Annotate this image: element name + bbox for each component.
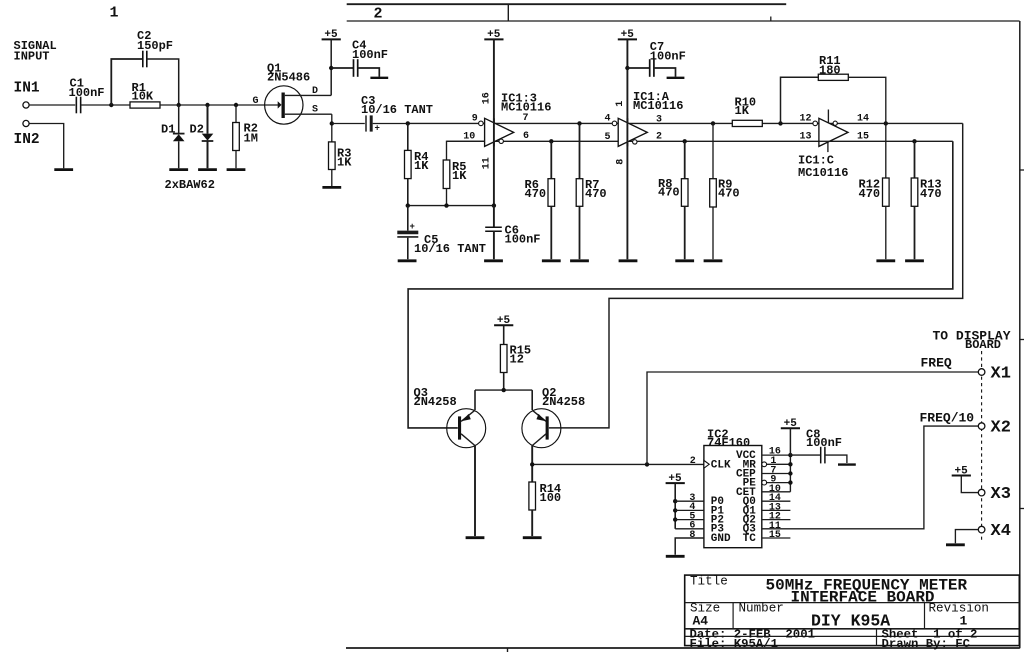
svg-text:100nF: 100nF xyxy=(650,50,686,64)
svg-text:10/16 TANT: 10/16 TANT xyxy=(361,103,433,117)
capacitor C2 xyxy=(111,29,178,105)
ground R9 xyxy=(704,259,723,262)
connector X1 xyxy=(978,365,1011,384)
svg-text:A4: A4 xyxy=(693,614,709,629)
wire IC2 GND pin xyxy=(675,538,704,555)
ground R3 xyxy=(322,186,341,189)
ground D1 xyxy=(169,168,188,171)
wire FREQ to X1 xyxy=(647,356,979,465)
svg-text:1K: 1K xyxy=(337,156,352,170)
capacitor C3 tantalum xyxy=(332,94,433,134)
svg-text:1: 1 xyxy=(110,5,119,22)
terminal IN2 xyxy=(14,120,40,148)
connector X2 xyxy=(978,419,1011,438)
wire IN2 to ground xyxy=(29,124,64,169)
wire pin14 to Q2 base xyxy=(549,123,963,428)
connector X3 xyxy=(978,485,1011,504)
ground C8 xyxy=(838,463,856,465)
title block xyxy=(685,575,1020,651)
capacitor C5 tantalum xyxy=(397,206,486,260)
svg-text:IN2: IN2 xyxy=(14,132,40,148)
svg-text:1: 1 xyxy=(960,614,968,629)
svg-text:FREQ/10: FREQ/10 xyxy=(920,411,975,426)
svg-text:470: 470 xyxy=(920,187,942,201)
capacitor C4 xyxy=(331,39,388,77)
label 2xBAW62 xyxy=(165,178,215,192)
op-amp U IC1:C MC10116 line receiver xyxy=(798,110,869,181)
svg-text:D2: D2 xyxy=(190,123,204,137)
connector dashed outline xyxy=(981,351,983,542)
svg-text:1K: 1K xyxy=(452,169,467,183)
svg-text:IN1: IN1 xyxy=(14,81,40,97)
svg-text:4: 4 xyxy=(605,114,611,125)
power +5 IC1 pin16 rail xyxy=(484,29,503,205)
ground R8 xyxy=(675,259,694,262)
sheet column label 2 xyxy=(374,6,383,23)
sheet frame bottom line xyxy=(346,648,1020,652)
svg-text:15: 15 xyxy=(857,131,869,142)
svg-text:X1: X1 xyxy=(991,365,1011,384)
svg-text:470: 470 xyxy=(718,186,740,200)
svg-text:FREQ: FREQ xyxy=(921,356,952,371)
svg-text:Number: Number xyxy=(739,602,784,616)
ground X4 xyxy=(946,543,965,546)
svg-text:14: 14 xyxy=(857,113,869,124)
resistor R10 xyxy=(732,96,762,127)
power +5 X3 xyxy=(952,465,979,492)
svg-text:GND: GND xyxy=(711,533,731,545)
IC2 right pin stubs xyxy=(762,447,793,542)
wire pin15 to Q3 base xyxy=(408,141,953,428)
svg-text:9: 9 xyxy=(472,114,478,125)
power +5 R15 xyxy=(494,315,513,344)
ground R12 xyxy=(876,259,895,262)
IC2 left pin numbers xyxy=(689,456,695,541)
resistor R13 xyxy=(911,141,941,259)
transistor Q2 2N4258 xyxy=(522,386,585,464)
transistor Q1 2N5486 JFET xyxy=(253,62,332,125)
ground R14 xyxy=(523,536,542,539)
resistor R9 xyxy=(710,123,740,259)
svg-text:1M: 1M xyxy=(244,132,258,146)
svg-text:10/16 TANT: 10/16 TANT xyxy=(414,242,486,256)
svg-text:2N5486: 2N5486 xyxy=(267,71,310,85)
power +5 IC2 preset inputs xyxy=(666,473,704,529)
svg-text:100nF: 100nF xyxy=(69,86,105,100)
svg-text:X3: X3 xyxy=(991,485,1011,504)
ground IC2 xyxy=(666,555,685,558)
svg-text:5: 5 xyxy=(605,132,611,143)
svg-text:Drawn By: FC: Drawn By: FC xyxy=(882,637,971,651)
power +5 Q1 drain xyxy=(322,29,341,95)
svg-text:MC10116: MC10116 xyxy=(798,166,848,180)
svg-text:3: 3 xyxy=(656,115,662,126)
wire C1 to R1 xyxy=(81,103,130,107)
ground D2 xyxy=(198,168,217,171)
resistor R7 xyxy=(576,123,606,259)
resistor R5 xyxy=(443,141,484,205)
svg-text:2xBAW62: 2xBAW62 xyxy=(165,178,215,192)
capacitor C1 xyxy=(69,77,105,114)
resistor R8 xyxy=(658,141,688,259)
wire R1 to Q1 gate xyxy=(160,103,278,107)
op-amp U IC1:A MC10116 line receiver xyxy=(605,90,684,165)
ground C7 xyxy=(667,77,685,79)
svg-text:7: 7 xyxy=(523,113,529,124)
wire Q2 collector to IC2 CLK xyxy=(530,462,704,466)
svg-text:12: 12 xyxy=(510,353,524,367)
wire X4 to ground xyxy=(955,530,978,544)
svg-text:2: 2 xyxy=(690,456,696,467)
ground R2 xyxy=(227,168,246,171)
svg-text:G: G xyxy=(253,96,259,107)
diode D1 xyxy=(161,105,185,168)
svg-text:TC: TC xyxy=(743,533,757,545)
svg-text:470: 470 xyxy=(525,187,547,201)
ground C6 xyxy=(484,259,503,262)
svg-text:8: 8 xyxy=(689,530,695,541)
svg-text:INTERFACE BOARD: INTERFACE BOARD xyxy=(791,589,935,607)
svg-text:1K: 1K xyxy=(414,159,429,173)
capacitor C6 xyxy=(485,206,540,260)
svg-text:470: 470 xyxy=(585,187,607,201)
ground R6 xyxy=(542,259,561,262)
svg-text:DIY K95A: DIY K95A xyxy=(811,612,890,631)
capacitor C8 xyxy=(790,428,847,464)
svg-text:X2: X2 xyxy=(991,419,1011,438)
sheet frame right edge xyxy=(1020,21,1024,648)
junction C7 tap xyxy=(625,66,629,70)
wire ECL bottom line pins 10-6-5-2-13-15 xyxy=(447,139,953,143)
junction Q1 source node xyxy=(330,121,334,125)
power +5 IC2 VCC xyxy=(781,418,800,455)
svg-text:100: 100 xyxy=(540,491,562,505)
ground IC1:A rail xyxy=(619,259,638,262)
op-amp U IC1:3 MC10116 line receiver xyxy=(463,92,551,170)
svg-text:16: 16 xyxy=(482,92,493,104)
wire IN1 to C1 xyxy=(29,104,75,106)
ground C5 xyxy=(398,259,417,262)
resistor R1 xyxy=(130,81,160,108)
ground R13 xyxy=(905,259,924,262)
wire analog bias bus xyxy=(406,203,497,207)
ground R7 xyxy=(570,259,589,262)
svg-text:X4: X4 xyxy=(991,522,1011,541)
svg-text:2N4258: 2N4258 xyxy=(414,395,457,409)
svg-text:1K: 1K xyxy=(735,104,750,118)
svg-text:470: 470 xyxy=(658,186,680,200)
resistor R11 xyxy=(781,54,886,123)
svg-text:Title: Title xyxy=(690,575,728,589)
svg-text:11: 11 xyxy=(482,157,493,169)
wire ECL top line pins 9-7-4-3-12-14 xyxy=(406,121,963,125)
label TO DISPLAY BOARD xyxy=(933,328,1011,352)
svg-text:2: 2 xyxy=(374,6,383,23)
svg-text:2N4258: 2N4258 xyxy=(542,395,585,409)
resistor R4 xyxy=(405,123,430,205)
svg-text:1: 1 xyxy=(615,101,626,107)
svg-text:12: 12 xyxy=(800,113,812,124)
resistor R12 xyxy=(859,123,890,259)
ground C4 xyxy=(370,77,388,79)
sheet column label 1 xyxy=(110,5,119,22)
svg-text:8: 8 xyxy=(615,159,626,165)
ground Q3 collector xyxy=(466,536,485,539)
terminal IN1 xyxy=(14,81,40,109)
power +5 IC1:A rail xyxy=(618,29,637,259)
svg-text:100nF: 100nF xyxy=(806,436,842,450)
svg-text:13: 13 xyxy=(800,131,812,142)
svg-text:6: 6 xyxy=(523,131,529,142)
svg-text:BOARD: BOARD xyxy=(965,338,1001,352)
IC U2 74F160 counter xyxy=(704,428,762,548)
resistor R2 xyxy=(233,105,258,168)
label SIGNAL INPUT xyxy=(14,39,57,64)
resistor R14 xyxy=(529,464,561,536)
resistor R15 xyxy=(500,344,531,391)
svg-text:100nF: 100nF xyxy=(505,233,541,247)
diode D2 xyxy=(190,105,214,168)
svg-text:MC10116: MC10116 xyxy=(633,99,683,113)
svg-text:INPUT: INPUT xyxy=(14,50,50,64)
wire emitter bus xyxy=(475,388,532,392)
ground IN2 xyxy=(54,168,73,171)
transistor Q3 2N4258 xyxy=(414,386,486,536)
svg-text:15: 15 xyxy=(769,530,781,541)
resistor R6 xyxy=(525,141,555,259)
connector X4 xyxy=(978,522,1011,541)
svg-text:2: 2 xyxy=(656,132,662,143)
resistor R3 xyxy=(329,124,353,187)
sheet frame top lines xyxy=(347,4,1020,21)
svg-text:+: + xyxy=(375,124,380,134)
svg-text:470: 470 xyxy=(859,187,881,201)
svg-text:+: + xyxy=(410,222,415,232)
capacitor C7 xyxy=(627,40,685,77)
svg-text:CLK: CLK xyxy=(711,459,731,471)
wire FREQ/10 pin11 to X2 xyxy=(762,411,979,529)
svg-text:File: K95A/1: File: K95A/1 xyxy=(690,637,779,651)
